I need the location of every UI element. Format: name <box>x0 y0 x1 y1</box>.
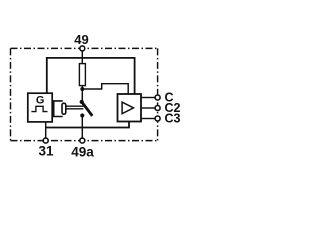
enclosure border left (dash-dot) <box>10 48 12 140</box>
svg-text:C3: C3 <box>165 112 181 126</box>
terminal 49a <box>80 138 85 143</box>
mechanical link lower line <box>66 108 84 110</box>
wire G box to terminal 31 <box>45 122 47 138</box>
wire resistor to node A <box>81 86 83 102</box>
enclosure border bottom (dash-dot) <box>11 140 158 142</box>
svg-text:G: G <box>36 94 45 106</box>
wire terminal 49 to resistor <box>81 51 83 64</box>
node A junction dot <box>80 87 84 91</box>
pulse waveform symbol <box>31 106 47 111</box>
wire amplifier to terminal C3 <box>141 118 155 120</box>
control unit box bottom edge <box>46 122 129 128</box>
switch pivot dot <box>80 100 84 104</box>
control unit box outline <box>47 58 135 94</box>
terminal C <box>155 95 160 100</box>
svg-text:49: 49 <box>74 32 88 47</box>
terminal C2 <box>155 106 160 111</box>
svg-text:31: 31 <box>38 144 54 159</box>
terminal 31 <box>43 138 48 143</box>
terminal C3 <box>155 116 160 121</box>
resistor R <box>79 64 85 86</box>
svg-text:49a: 49a <box>71 144 94 159</box>
terminal 49 <box>80 46 85 51</box>
switch blade <box>82 102 93 116</box>
wire node A to amplifier input <box>82 84 128 94</box>
wire switch to terminal 49a <box>81 116 83 139</box>
connector plug cap <box>62 103 66 114</box>
amplifier box <box>118 94 142 122</box>
wire amplifier to terminal C <box>141 97 155 99</box>
mechanical link upper line <box>66 105 84 107</box>
wire amplifier to terminal C2 <box>141 107 155 109</box>
amplifier triangle <box>122 102 133 114</box>
enclosure border right (dash-dot) <box>157 48 159 140</box>
connector plug body <box>54 101 63 117</box>
enclosure border top (dash-dot) <box>11 47 158 49</box>
switch fixed contact dot <box>80 113 84 117</box>
Hall sender G box <box>28 93 52 122</box>
